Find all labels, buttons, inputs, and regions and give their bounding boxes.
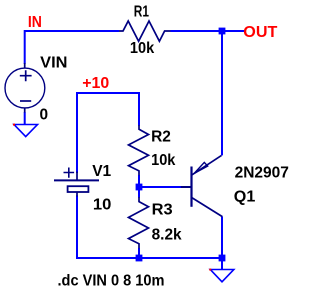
svg-text:10k: 10k — [130, 40, 154, 57]
svg-text:+10: +10 — [82, 75, 109, 92]
svg-text:OUT: OUT — [243, 24, 277, 41]
svg-text:8.2k: 8.2k — [152, 226, 182, 243]
svg-text:R2: R2 — [151, 129, 171, 146]
svg-text:R1: R1 — [134, 4, 149, 21]
svg-text:0: 0 — [40, 106, 49, 123]
svg-text:R3: R3 — [152, 201, 173, 218]
svg-text:2N2907: 2N2907 — [235, 165, 289, 182]
svg-text:IN: IN — [28, 14, 42, 31]
svg-text:10: 10 — [93, 197, 112, 214]
svg-text:10k: 10k — [151, 152, 175, 169]
svg-text:VIN: VIN — [40, 55, 67, 72]
svg-text:V1: V1 — [92, 163, 111, 180]
svg-text:Q1: Q1 — [234, 189, 256, 206]
svg-text:.dc VIN 0 8 10m: .dc VIN 0 8 10m — [58, 273, 165, 290]
